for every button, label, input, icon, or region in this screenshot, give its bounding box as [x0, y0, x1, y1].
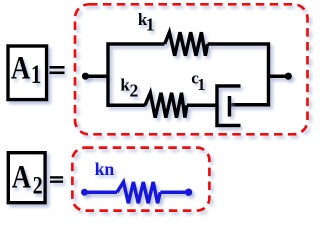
label c1 [191, 69, 205, 94]
node (left terminal dot, bottom network) [81, 189, 88, 196]
dashed enclosure box (top network) [75, 4, 308, 134]
spring k2 [145, 93, 187, 118]
svg-text:A: A [12, 158, 31, 196]
equals sign (bottom) [50, 176, 63, 183]
node (right terminal dot, top network) [285, 73, 292, 80]
label k2 [120, 76, 138, 101]
svg-text:kn: kn [95, 159, 115, 179]
svg-text:A: A [11, 49, 30, 87]
wire left stub [86, 74, 109, 78]
damper c1 piston [228, 96, 232, 117]
spring kn [117, 182, 160, 203]
block A2 box [8, 153, 45, 203]
label A2 [12, 158, 43, 199]
damper c1 cylinder [217, 86, 241, 126]
node (right terminal dot, bottom network) [185, 189, 192, 196]
spring k1 [165, 32, 208, 55]
svg-text:1: 1 [146, 15, 155, 35]
wire right stub [269, 74, 289, 78]
wire spring k2 to damper [187, 104, 217, 108]
label A1 [11, 49, 41, 90]
equals sign (top) [50, 66, 65, 74]
block A1 box [8, 46, 47, 100]
label k1 [138, 10, 155, 34]
wire left rail with corners to k1 and k2 [108, 44, 165, 105]
wire left (blue) [85, 191, 118, 195]
dashed enclosure box (bottom network) [72, 148, 209, 211]
svg-text:2: 2 [130, 81, 139, 101]
svg-text:1: 1 [197, 75, 205, 94]
wire top-right corner and right rail [208, 44, 269, 105]
node (left terminal dot, top network) [82, 73, 89, 80]
svg-text:1: 1 [31, 61, 41, 90]
wire right (blue) [160, 191, 185, 195]
svg-text:2: 2 [33, 172, 43, 200]
